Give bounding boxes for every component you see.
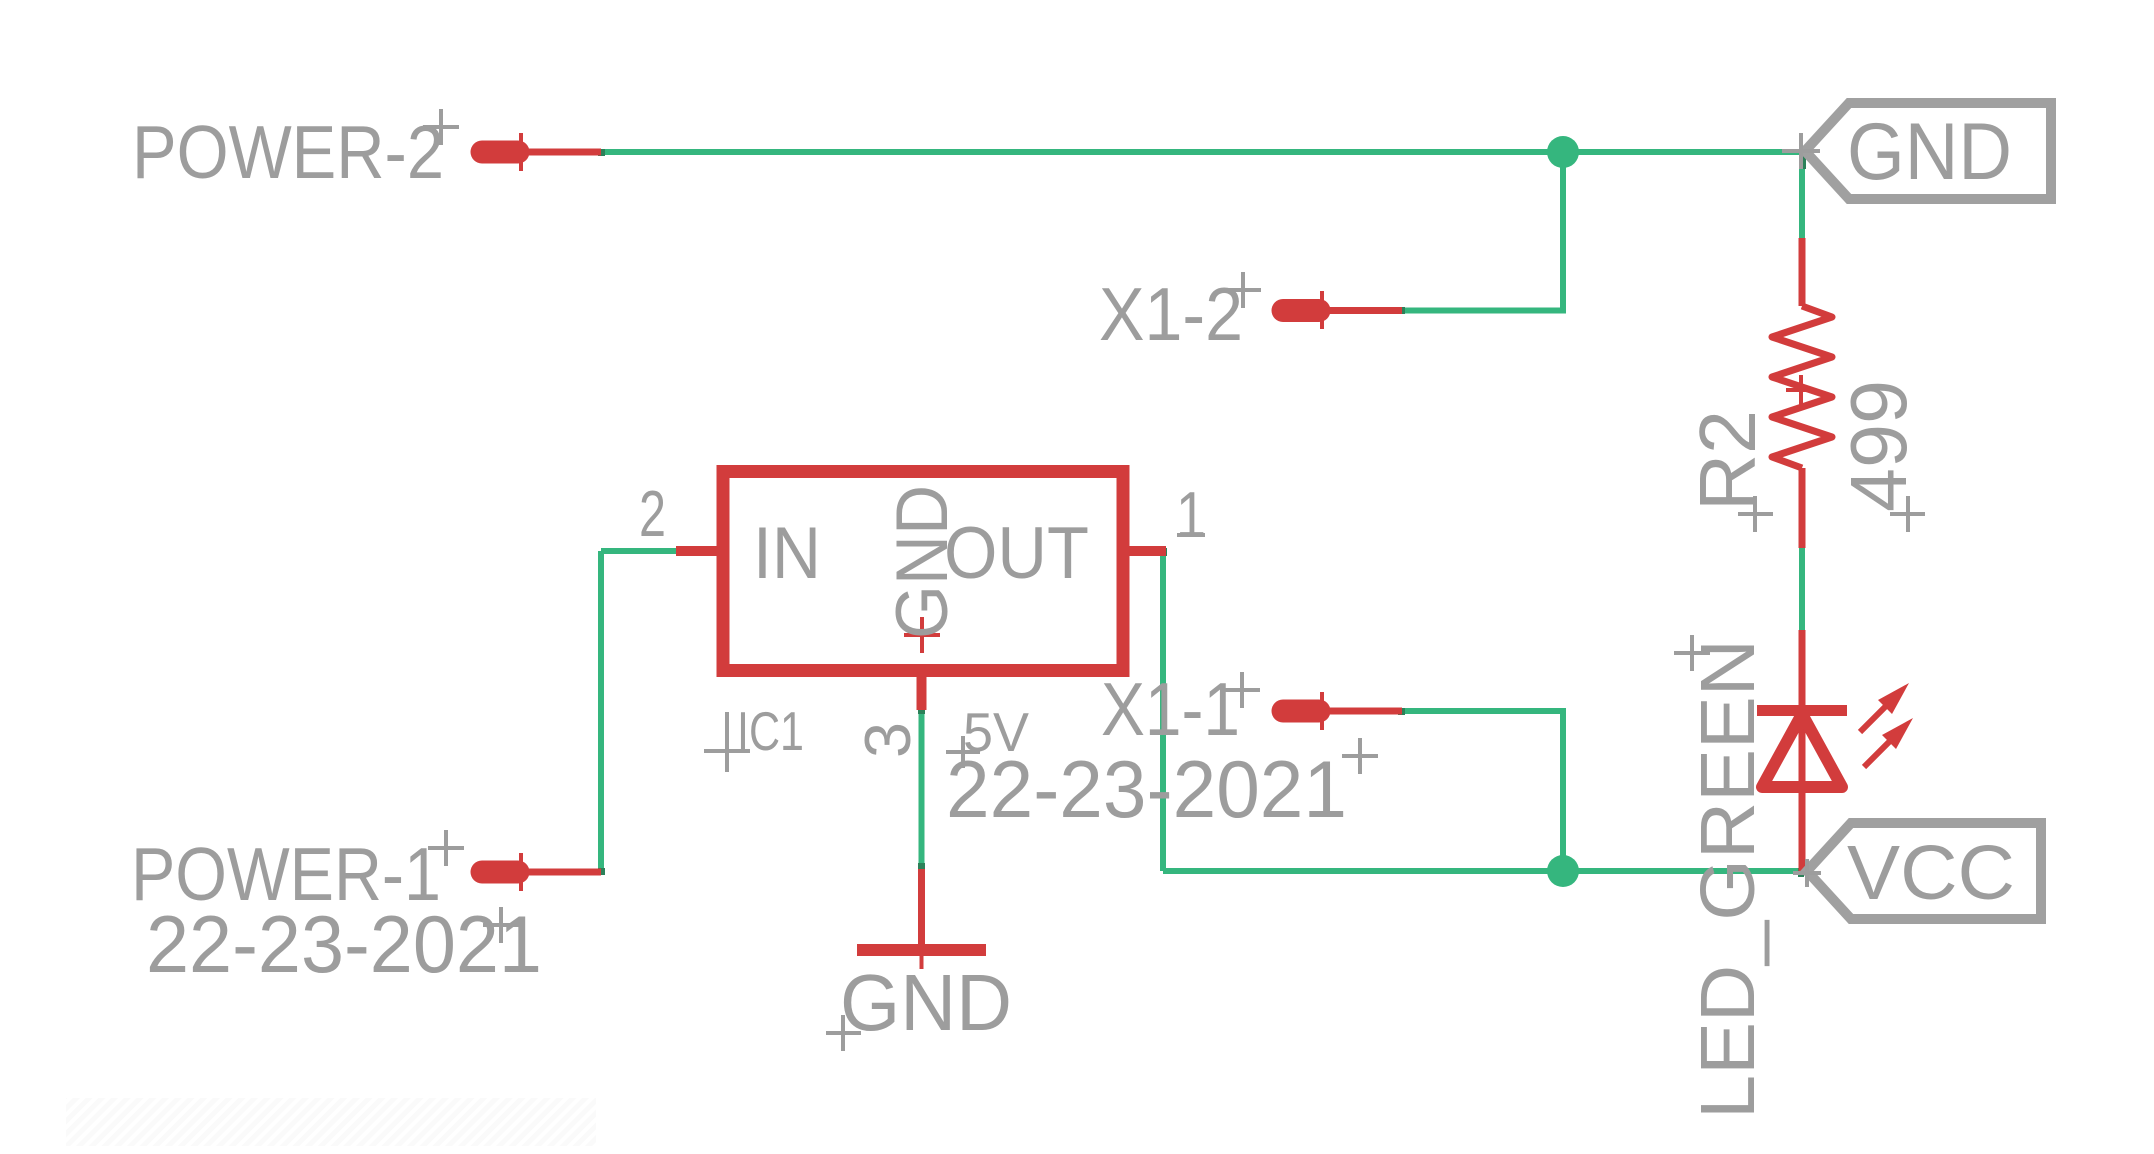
svg-text:X1-2: X1-2 xyxy=(1099,272,1243,356)
junction dot net VCC xyxy=(1547,855,1579,887)
overlap mark OUT corner xyxy=(1160,548,1167,556)
overlap mark wire/pin POWER-2 xyxy=(598,149,605,156)
watermark band xyxy=(66,1098,596,1146)
anchor cross LED_GREEN xyxy=(1674,635,1710,671)
overlap mark pin3 top xyxy=(918,707,925,714)
svg-text:22-23-2021: 22-23-2021 xyxy=(146,900,542,990)
svg-text:2: 2 xyxy=(639,477,666,550)
junction dot net GND xyxy=(1547,136,1579,168)
pin POWER-1 pill xyxy=(482,861,518,884)
overlap mark VCC point xyxy=(1798,868,1804,877)
svg-text:1: 1 xyxy=(1176,478,1206,551)
pin X1-2 lead xyxy=(1329,307,1402,314)
wire net GND top horizontal xyxy=(600,149,1803,155)
svg-text:LED_GREEN: LED_GREEN xyxy=(1685,639,1771,1119)
anchor cross POWER value xyxy=(483,907,519,943)
supply flag GND xyxy=(1805,103,2051,199)
wire net GND X1-2 horizontal xyxy=(1401,308,1566,314)
svg-text:IN: IN xyxy=(753,513,821,594)
svg-text:VCC: VCC xyxy=(1847,830,2015,916)
pin POWER-2 lead xyxy=(528,149,601,156)
wire net GND2 pin3 vertical xyxy=(919,710,925,869)
IC1 pin 1 stub xyxy=(1123,546,1166,556)
IC1 pin 3 stub xyxy=(917,670,927,710)
anchor cross 5V xyxy=(946,736,980,768)
pin POWER-1 lead xyxy=(528,869,601,876)
anchor cross GND bottom xyxy=(826,1015,861,1051)
resistor R2 lead top xyxy=(1799,238,1806,306)
anchor cross X1 value xyxy=(1342,738,1378,774)
svg-text:GND: GND xyxy=(840,958,1012,1047)
overlap mark wire/pin POWER-1 xyxy=(598,868,605,875)
LED arrow 1 xyxy=(1860,683,1909,732)
wire net VCC bottom horizontal xyxy=(1163,868,1807,874)
supply flag VCC xyxy=(1807,823,2041,919)
anchor cross X1-2 xyxy=(1225,272,1261,308)
pin POWER-2 pill xyxy=(482,141,518,164)
svg-text:3: 3 xyxy=(851,722,924,758)
ground symbol bar xyxy=(857,944,986,956)
pin X1-2 connect cross xyxy=(1320,291,1324,329)
anchor cross VCC flag xyxy=(1793,859,1821,887)
LED cathode bar xyxy=(1757,705,1847,716)
svg-text:GND: GND xyxy=(882,485,963,639)
anchor cross GND flag xyxy=(1782,133,1820,169)
anchor cross POWER-1 xyxy=(428,830,464,866)
overlap mark wire/pin X1-1 xyxy=(1398,708,1405,715)
resistor R2 lead bottom xyxy=(1799,468,1806,548)
svg-text:499: 499 xyxy=(1834,380,1923,512)
LED anode lead through triangle xyxy=(1799,707,1806,871)
anchor cross X1-1 xyxy=(1224,672,1260,708)
wire net IN horizontal to pin 2 xyxy=(601,548,678,554)
svg-text:X1-1: X1-1 xyxy=(1101,667,1240,751)
wire net VCC vertical X1-1 to junction xyxy=(1560,711,1566,871)
anchor cross IC1 xyxy=(704,712,750,772)
resistor R2 origin cross xyxy=(1786,375,1806,405)
regulator IC1 box xyxy=(723,472,1123,671)
pin POWER-1 connect cross xyxy=(519,853,523,891)
overlap mark GND flag point xyxy=(1799,155,1806,169)
pin POWER-2 connect cross xyxy=(519,133,523,171)
pin X1-1 lead xyxy=(1329,708,1402,715)
pin X1-2 pill xyxy=(1283,299,1319,322)
svg-text:POWER-2: POWER-2 xyxy=(132,110,444,194)
svg-text:R2: R2 xyxy=(1683,410,1772,511)
ground symbol lead xyxy=(918,869,925,945)
wire net IN vertical POWER-1 xyxy=(598,551,604,872)
ground symbol tick xyxy=(920,956,924,969)
wire net VCC X1-1 horizontal xyxy=(1401,708,1566,714)
wire net GND flag drop xyxy=(1799,152,1805,238)
pin X1-1 pill xyxy=(1283,700,1319,723)
anchor cross POWER-2 xyxy=(423,109,459,145)
svg-text:GND: GND xyxy=(1847,107,2012,197)
IC1 pin 2 stub xyxy=(676,546,723,556)
overlap mark wire/pin X1-2 xyxy=(1398,307,1405,314)
overlap mark pin3 bottom xyxy=(918,863,925,869)
resistor R2 zigzag xyxy=(1772,306,1832,468)
LED arrow 2 xyxy=(1864,718,1913,767)
IC1 origin cross xyxy=(904,617,940,653)
svg-text:OUT: OUT xyxy=(944,513,1089,594)
pin X1-1 connect cross xyxy=(1320,692,1324,730)
anchor cross R2 xyxy=(1738,496,1773,532)
LED lead top xyxy=(1799,630,1806,707)
wire net GND vertical from junction to X1-2 row xyxy=(1560,152,1566,311)
anchor cross 499 xyxy=(1890,496,1925,532)
LED triangle xyxy=(1762,714,1842,787)
wire resistor-to-LED gap xyxy=(1799,548,1805,630)
wire net VCC OUT vertical xyxy=(1160,551,1166,871)
